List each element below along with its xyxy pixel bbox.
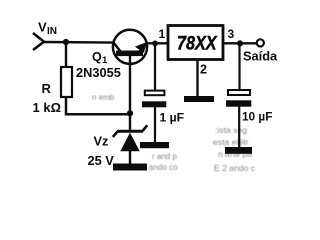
ground pin2 — [184, 96, 214, 102]
svg-text:E 2 ando c: E 2 ando c — [214, 163, 256, 173]
wire input to transistor — [44, 41, 114, 44]
transistor Q1 — [113, 30, 147, 64]
wire zener to ground — [129, 151, 131, 164]
svg-text:esta elétr: esta elétr — [213, 137, 248, 147]
svg-text:Saída: Saída — [243, 49, 278, 64]
svg-text:2: 2 — [200, 63, 207, 77]
wire junction down to R — [65, 42, 67, 68]
wire pin3 to output — [223, 42, 257, 44]
ground C1 — [140, 142, 169, 148]
wire C2 to ground — [238, 107, 240, 149]
svg-text:25 V: 25 V — [88, 153, 115, 168]
output terminal — [257, 39, 264, 46]
svg-text:10 µF: 10 µF — [242, 110, 272, 124]
svg-text:1: 1 — [159, 27, 166, 41]
wire R bottom to zener node — [66, 97, 130, 114]
capacitor C1 1uF — [142, 91, 166, 108]
svg-text:3: 3 — [228, 27, 235, 41]
ground zener — [113, 164, 147, 171]
svg-text:IN: IN — [47, 26, 57, 37]
svg-text:1 µF: 1 µF — [160, 111, 185, 125]
svg-text:ando co: ando co — [149, 163, 178, 172]
node junction input/R — [63, 39, 69, 45]
svg-text:V: V — [38, 20, 47, 35]
svg-text:R: R — [42, 81, 52, 96]
wire node to zener — [129, 113, 131, 130]
svg-text:1 kΩ: 1 kΩ — [33, 100, 62, 115]
wire C1 to ground — [154, 107, 156, 143]
faint bleed-through text right side — [92, 93, 256, 173]
node junction pin1/C1 — [152, 41, 158, 47]
wire emitter to regulator pin1 — [147, 42, 167, 44]
wire junction down to C1 — [154, 43, 156, 91]
ground C2 — [225, 147, 252, 154]
input terminal VIN — [33, 33, 44, 50]
regulator U1 78XX — [168, 26, 223, 60]
capacitor C2 10uF — [226, 90, 251, 107]
wire junction down to C2 — [238, 43, 240, 90]
node junction base/R/zener — [127, 110, 133, 116]
wire base down to zener node — [129, 56, 131, 113]
zener diode Vz — [113, 125, 147, 151]
node junction pin3/C2 — [237, 40, 243, 46]
svg-text::ista seg: :ista seg — [215, 125, 247, 135]
svg-text:Vz: Vz — [94, 134, 109, 149]
svg-text:2N3055: 2N3055 — [76, 65, 121, 80]
svg-text:78XX: 78XX — [177, 34, 218, 55]
svg-text:r and p: r and p — [152, 152, 177, 161]
svg-text:n emb: n emb — [92, 93, 115, 102]
svg-text:Q: Q — [92, 50, 102, 64]
resistor R — [61, 67, 72, 97]
wire pin2 to ground — [196, 60, 198, 97]
